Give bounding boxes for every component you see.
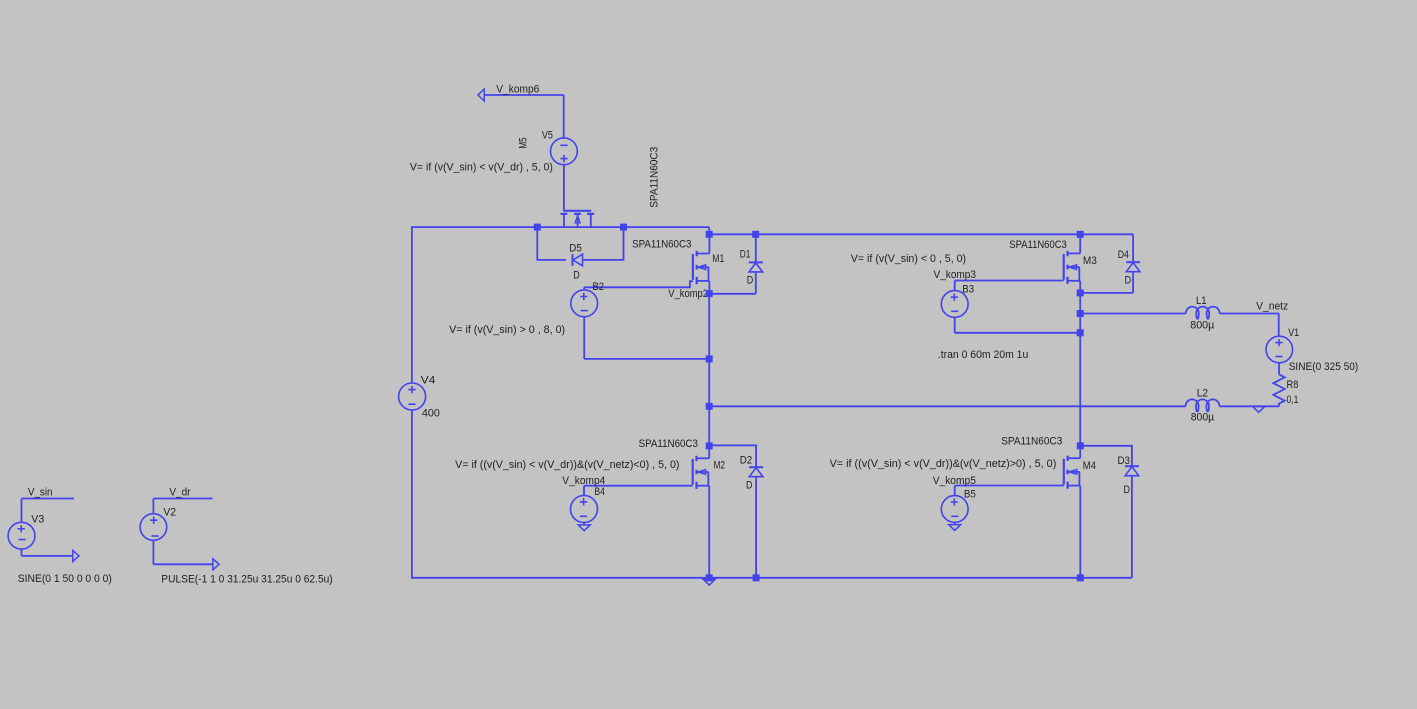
- wire V5 to M5 gate: [563, 165, 565, 212]
- node junction top rail / D5 right: [620, 224, 627, 231]
- svg-text:V= if ((v(V_sin) < v(V_dr))&(v: V= if ((v(V_sin) < v(V_dr))&(v(V_netz)<0…: [455, 459, 679, 471]
- svg-text:M5: M5: [517, 137, 529, 148]
- svg-text:V= if ((v(V_sin) < v(V_dr))&(v: V= if ((v(V_sin) < v(V_dr))&(v(V_netz)>0…: [830, 458, 1057, 470]
- node junction M2 drain / D2: [706, 442, 713, 449]
- diode D1: [709, 234, 763, 293]
- wire bottom rail: [412, 577, 1132, 579]
- diode D5: [573, 254, 583, 266]
- svg-text:L1: L1: [1196, 295, 1207, 307]
- voltage source V1: [1266, 314, 1293, 375]
- voltage source V2 V_dr: [140, 499, 213, 565]
- ground flag at B4: [578, 525, 590, 531]
- svg-text:SINE(0 325 50): SINE(0 325 50): [1289, 361, 1359, 373]
- diode D2: [710, 445, 764, 577]
- svg-text:V_komp3: V_komp3: [934, 269, 977, 281]
- wire B3 to M3 gate: [955, 280, 1064, 282]
- port flag V_komp6: [478, 89, 484, 101]
- voltage source B5: [941, 486, 968, 525]
- transistor M1: [693, 234, 710, 293]
- node junction bottom rail / D2: [753, 574, 760, 581]
- diode D3: [1081, 446, 1139, 578]
- svg-text:D2: D2: [740, 454, 752, 466]
- wire D5 right leg: [583, 227, 624, 260]
- svg-text:R8: R8: [1287, 379, 1299, 391]
- svg-text:V_sin: V_sin: [28, 486, 53, 498]
- svg-text:V4: V4: [421, 374, 436, 386]
- inductor L1: [1080, 307, 1279, 319]
- svg-text:M2: M2: [714, 460, 725, 472]
- port flag V_sin: [73, 550, 79, 561]
- svg-text:D1: D1: [740, 249, 751, 261]
- svg-text:D4: D4: [1118, 249, 1129, 261]
- transistor M5: [561, 211, 595, 227]
- node junction top rail / D1: [752, 231, 759, 238]
- node junction B3 return: [1077, 329, 1084, 336]
- wire left rail upper: [411, 226, 413, 383]
- wire top rail right: [709, 233, 1133, 235]
- svg-text:B2: B2: [593, 281, 605, 293]
- svg-text:V= if (v(V_sin) > 0 , 8, 0): V= if (v(V_sin) > 0 , 8, 0): [449, 324, 565, 336]
- svg-text:V_dr: V_dr: [169, 486, 190, 498]
- svg-text:D5: D5: [569, 243, 582, 255]
- svg-text:B5: B5: [964, 489, 976, 501]
- diode D4: [1080, 234, 1140, 293]
- node junction top rail / M3 drain: [1077, 231, 1084, 238]
- node junction bottom rail / M4 source: [1077, 574, 1084, 581]
- wire B5 to M4 gate: [955, 485, 1064, 487]
- node junction top rail / M1 drain: [706, 231, 713, 238]
- wire V_komp6 net: [484, 94, 564, 96]
- voltage source V5: [551, 138, 578, 165]
- svg-text:M3: M3: [1083, 255, 1097, 267]
- port flag V_dr: [213, 559, 219, 570]
- wire top rail jog: [708, 227, 710, 234]
- svg-text:SPA11N60C3: SPA11N60C3: [1009, 239, 1067, 251]
- svg-text:D: D: [747, 275, 754, 287]
- svg-text:800µ: 800µ: [1191, 412, 1215, 424]
- svg-text:L2: L2: [1197, 387, 1208, 399]
- svg-text:D: D: [1125, 275, 1132, 287]
- svg-text:SPA11N60C3: SPA11N60C3: [639, 438, 698, 450]
- svg-text:B4: B4: [594, 486, 605, 498]
- svg-text:D: D: [746, 479, 753, 491]
- svg-text:V= if (v(V_sin) < 0 , 5, 0): V= if (v(V_sin) < 0 , 5, 0): [851, 253, 966, 265]
- svg-text:B3: B3: [962, 284, 974, 296]
- voltage source B3: [941, 281, 1080, 333]
- inductor L2: [1186, 399, 1279, 411]
- wire left rail lower: [411, 410, 413, 579]
- svg-text:SPA11N60C3: SPA11N60C3: [649, 147, 661, 208]
- svg-text:V3: V3: [31, 513, 44, 525]
- node junction top rail / D5 left: [534, 224, 541, 231]
- svg-text:V2: V2: [163, 507, 176, 519]
- ground flag at V_netz return: [1253, 407, 1265, 413]
- svg-text:D3: D3: [1118, 455, 1131, 467]
- svg-text:SINE(0 1 50 0 0 0 0): SINE(0 1 50 0 0 0 0): [18, 573, 112, 585]
- svg-text:V_komp2: V_komp2: [668, 288, 708, 300]
- svg-text:.tran 0 60m 20m 1u: .tran 0 60m 20m 1u: [938, 349, 1029, 361]
- svg-text:V5: V5: [542, 129, 553, 141]
- wire V5 top lead: [563, 95, 565, 138]
- wire node column M1-M2: [708, 294, 710, 459]
- voltage source V4: [399, 383, 426, 410]
- wire D5 left leg: [537, 227, 566, 260]
- node junction M3 source / D4: [1077, 289, 1084, 296]
- svg-text:D: D: [573, 270, 580, 282]
- voltage source V3 V_sin: [8, 499, 74, 556]
- svg-text:400: 400: [422, 408, 440, 420]
- node junction M4 drain / D3: [1077, 442, 1084, 449]
- svg-text:800µ: 800µ: [1190, 319, 1215, 331]
- transistor M3: [1064, 234, 1081, 293]
- svg-text:D: D: [1124, 484, 1131, 496]
- svg-text:M1: M1: [712, 253, 724, 265]
- svg-text:PULSE(-1 1 0 31.25u 31.25u 0 6: PULSE(-1 1 0 31.25u 31.25u 0 62.5u): [161, 574, 332, 586]
- svg-text:0,1: 0,1: [1287, 394, 1299, 406]
- node junction B2 return: [706, 355, 713, 362]
- ground flag at B5: [949, 525, 961, 531]
- voltage source B2: [571, 287, 709, 359]
- wire B2 to M1 gate: [584, 281, 693, 287]
- node junction mid rail: [706, 403, 713, 410]
- svg-text:V1: V1: [1288, 327, 1299, 339]
- node junction L1 row: [1077, 310, 1084, 317]
- svg-text:V_komp6: V_komp6: [496, 83, 539, 95]
- voltage source B4: [571, 486, 598, 525]
- resistor R8: [1273, 374, 1284, 406]
- ground flag at bottom rail: [703, 579, 715, 585]
- svg-text:V_komp5: V_komp5: [933, 475, 976, 487]
- svg-text:SPA11N60C3: SPA11N60C3: [1001, 436, 1062, 448]
- transistor M4: [1064, 456, 1081, 579]
- wire B4 to M2 gate: [584, 485, 693, 487]
- wire mid rail: [709, 405, 1185, 407]
- svg-text:V= if (v(V_sin) < v(V_dr) , 5,: V= if (v(V_sin) < v(V_dr) , 5, 0): [410, 162, 553, 174]
- transistor M2: [693, 456, 710, 579]
- node V_komp2 junction: [706, 290, 713, 297]
- svg-text:M4: M4: [1083, 460, 1096, 472]
- wire top rail left: [412, 226, 709, 228]
- svg-text:SPA11N60C3: SPA11N60C3: [632, 238, 691, 250]
- svg-text:V_netz: V_netz: [1256, 300, 1288, 312]
- node junction bottom rail / M2 source: [706, 574, 713, 581]
- wire node column M3-M4: [1079, 293, 1081, 458]
